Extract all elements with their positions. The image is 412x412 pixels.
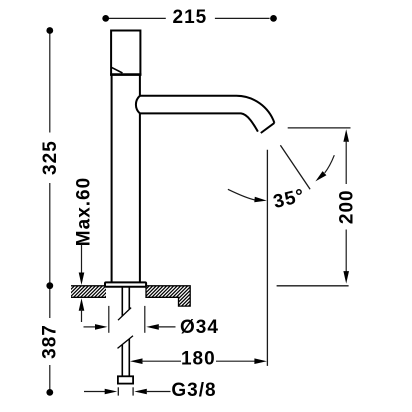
- base flange: [105, 282, 146, 286]
- dimension 200 bottom arrow: [345, 230, 347, 273]
- dimension 325/387 vertical line segments: [49, 31, 51, 133]
- diameter 34 left arrow: [84, 326, 97, 328]
- shank upper piece: [121, 287, 123, 316]
- G3/8 extension ticks: [117, 387, 119, 395]
- Max.60 upper arrow: [81, 244, 83, 274]
- faucet body left edge: [111, 75, 113, 283]
- diameter 34 left extension line: [108, 306, 110, 333]
- spout top line and outer curve: [140, 96, 275, 123]
- G3/8 fitting: [118, 376, 133, 383]
- svg-text:180: 180: [181, 348, 216, 369]
- dimension 215 right dot: [270, 15, 277, 22]
- svg-text:387: 387: [39, 324, 60, 359]
- countertop right hatched block: [125, 285, 210, 307]
- outlet axis vertical reference line: [266, 150, 268, 366]
- shank lower piece: [121, 345, 123, 377]
- shank upper break line: [118, 308, 131, 321]
- spout bottom line and inner curve: [140, 113, 258, 131]
- faucet body right edge lower: [139, 113, 141, 282]
- dimension 180 left arrow: [130, 358, 143, 364]
- handle bottom line: [110, 73, 141, 76]
- 35 degree right arc arrow: [325, 155, 335, 173]
- dimension top dot: [46, 27, 53, 34]
- diameter 34 right extension line: [144, 306, 146, 333]
- handle lever line: [111, 67, 122, 73]
- faucet handle: [111, 31, 140, 75]
- diameter 34 right arrow: [146, 324, 159, 330]
- dimension 180 right segment and arrow: [216, 360, 256, 362]
- spout joint arc: [136, 96, 140, 114]
- dimension 215 line right segment: [215, 17, 270, 19]
- 35 degree left arc arrow: [228, 189, 256, 200]
- dimension 200 bottom reference line: [277, 285, 349, 287]
- dimension 200 top reference line: [288, 127, 351, 129]
- dimension bottom dot: [46, 389, 53, 396]
- svg-text:Max.60: Max.60: [74, 177, 95, 246]
- Max.60 lower arrow: [79, 298, 85, 311]
- G3/8 left arrow: [84, 391, 106, 393]
- countertop left hatched block: [59, 285, 117, 298]
- 35 degree swivel line: [280, 145, 310, 189]
- svg-text:325: 325: [40, 140, 61, 175]
- spout end face: [261, 123, 275, 133]
- svg-text:215: 215: [173, 7, 208, 28]
- dimension 200 top arrow: [343, 129, 349, 142]
- dimension middle dot: [46, 282, 53, 289]
- dimension 215 line left segment: [109, 17, 166, 19]
- svg-text:G3/8: G3/8: [171, 380, 216, 401]
- dimension 215 left dot: [102, 15, 109, 22]
- svg-text:200: 200: [337, 189, 358, 224]
- shank lower break line: [118, 336, 134, 349]
- faucet body right edge upper: [139, 75, 141, 96]
- svg-text:Ø34: Ø34: [180, 317, 219, 338]
- G3/8 right arrow: [134, 389, 147, 395]
